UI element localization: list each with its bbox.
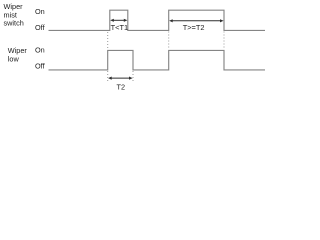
svg-text:low: low — [8, 55, 20, 64]
svg-text:T>=T2: T>=T2 — [183, 23, 205, 32]
dotted guide below first wiper-low falling edge (T2 end) — [132, 71, 134, 83]
wire: wiper mist switch waveform (two pulses) — [49, 10, 266, 30]
svg-text:On: On — [35, 7, 45, 16]
svg-text:Off: Off — [35, 62, 46, 71]
dotted guide at first wiper-low rising edge — [107, 32, 109, 49]
dimension arrow T<T1 (double-headed, inside first mist pulse) — [110, 19, 127, 22]
svg-text:T<T1: T<T1 — [111, 23, 128, 32]
dotted guide at second pulse rising edge — [168, 32, 170, 50]
dimension arrow T2 (double-headed, below first wiper-low pulse) — [108, 77, 133, 80]
wire: wiper low waveform (two pulses) — [49, 50, 266, 70]
dotted guide below first wiper-low rising edge (T2 start) — [107, 71, 109, 83]
label: Wiper mist switch (signal name, 3 lines) — [4, 2, 24, 28]
svg-text:On: On — [35, 45, 45, 54]
svg-text:switch: switch — [4, 19, 24, 28]
dimension arrow T>=T2 (double-headed, inside second mist pulse) — [169, 19, 224, 22]
dotted guide at second pulse falling edge — [223, 32, 225, 50]
label: Wiper low (signal name, 2 lines) — [8, 46, 28, 63]
svg-text:T2: T2 — [117, 83, 126, 92]
svg-text:Off: Off — [35, 23, 46, 32]
